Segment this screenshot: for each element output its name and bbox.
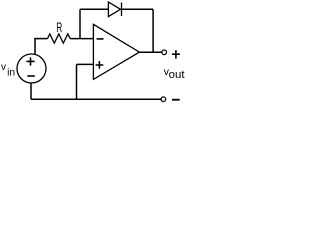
wire non-inverting input — [77, 63, 94, 65]
voltage source Vin — [17, 54, 46, 83]
wire feedback left vertical — [79, 9, 81, 38]
svg-text:R: R — [56, 19, 62, 35]
op-amp minus label — [97, 38, 104, 40]
terminal bottom minus label — [172, 99, 180, 101]
wire op-amp output — [139, 51, 162, 53]
diode D1 — [108, 2, 121, 17]
wire top feedback horizontal right segment — [122, 8, 154, 10]
wire source bottom lead — [30, 83, 32, 99]
wire inverting input right segment — [72, 38, 93, 40]
svg-text:out: out — [169, 69, 185, 81]
svg-text:v: v — [1, 62, 6, 73]
wire non-inverting down lead — [76, 64, 78, 99]
op-amp U1 — [93, 24, 139, 79]
svg-text:in: in — [7, 68, 15, 79]
terminal bottom circle — [161, 97, 166, 102]
wire bottom rail — [31, 98, 161, 100]
source plus label — [26, 57, 34, 65]
resistor R — [48, 34, 73, 43]
op-amp plus label — [96, 61, 104, 69]
terminal top circle — [162, 50, 167, 55]
wire source top lead — [34, 39, 36, 55]
wire top feedback horizontal left segment — [80, 8, 108, 10]
source minus label — [27, 75, 35, 77]
wire feedback right vertical — [152, 9, 154, 52]
terminal top plus label — [172, 50, 180, 59]
wire inverting input left segment — [34, 38, 47, 40]
